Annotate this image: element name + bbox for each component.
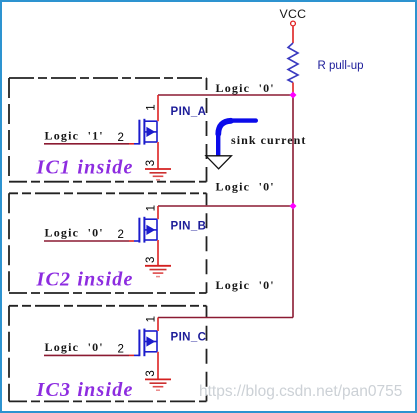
- svg-text:sink current: sink current: [231, 133, 306, 147]
- wire gate net Q1: [44, 143, 129, 145]
- svg-text:PIN_A: PIN_A: [171, 106, 207, 118]
- wire net PIN_C horizontal: [158, 317, 293, 319]
- sink arrowhead triangle: [206, 156, 232, 169]
- svg-text:Logic '0': Logic '0': [216, 278, 275, 292]
- svg-text:VCC: VCC: [280, 7, 307, 21]
- wire net PIN_B horizontal: [158, 205, 293, 207]
- wire gate net Q2: [44, 240, 129, 242]
- svg-text:PIN_B: PIN_B: [171, 221, 207, 233]
- svg-text:IC2 inside: IC2 inside: [36, 269, 134, 291]
- transistor Q2: [129, 206, 158, 266]
- wire net PIN_A horizontal: [158, 94, 293, 96]
- IC2 dashed box: [9, 193, 207, 293]
- svg-text:https://blog.csdn.net/pan0755: https://blog.csdn.net/pan0755: [199, 383, 402, 400]
- svg-text:Logic '0': Logic '0': [216, 179, 275, 193]
- wire bus vertical: [292, 95, 294, 318]
- IC3 dashed box: [9, 306, 207, 402]
- wire gate net Q3: [44, 354, 129, 356]
- svg-text:3: 3: [145, 370, 157, 376]
- svg-text:R pull-up: R pull-up: [318, 60, 364, 72]
- svg-text:Logic '0': Logic '0': [45, 226, 104, 240]
- svg-text:1: 1: [145, 104, 157, 110]
- svg-text:IC3 inside: IC3 inside: [36, 379, 134, 401]
- svg-text:Logic '0': Logic '0': [45, 340, 104, 354]
- svg-text:2: 2: [118, 229, 124, 241]
- junction node A: [290, 92, 297, 99]
- svg-text:PIN_C: PIN_C: [171, 332, 207, 344]
- ground Q2: [145, 266, 171, 277]
- svg-text:3: 3: [145, 257, 157, 263]
- ground Q1: [145, 169, 171, 180]
- junction node B: [290, 203, 297, 210]
- resistor R pull-up: [288, 43, 364, 93]
- svg-text:Logic '0': Logic '0': [216, 81, 275, 95]
- svg-text:1: 1: [145, 205, 157, 211]
- VCC power port: [280, 7, 307, 43]
- ground Q3: [145, 379, 171, 390]
- svg-text:IC1 inside: IC1 inside: [36, 157, 134, 179]
- svg-text:1: 1: [145, 316, 157, 322]
- sink current arrow: [218, 121, 256, 155]
- transistor Q1: [129, 95, 158, 169]
- transistor Q3: [129, 318, 158, 380]
- svg-text:Logic '1': Logic '1': [45, 128, 104, 142]
- svg-text:2: 2: [118, 343, 124, 355]
- svg-text:2: 2: [118, 132, 124, 144]
- IC1 dashed box: [9, 78, 207, 182]
- svg-text:3: 3: [145, 160, 157, 166]
